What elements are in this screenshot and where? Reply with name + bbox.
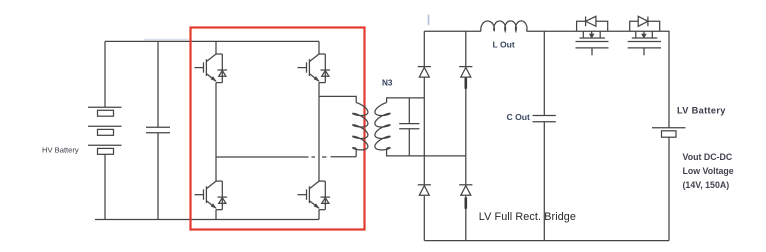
wire: secondary bottom lead (387, 148, 466, 156)
wire: left leg midpoint (215, 83, 217, 182)
svg-text:Vout DC-DC: Vout DC-DC (683, 152, 733, 162)
transistor Q3 bottom-left IGBT (195, 181, 228, 210)
svg-text:HV Battery: HV Battery (42, 146, 79, 155)
svg-text:N3: N3 (382, 79, 393, 88)
diode D4 (459, 185, 472, 196)
transistor Q4 bottom-right IGBT (298, 181, 331, 210)
wire: right leg collector stub (318, 41, 320, 54)
battery HV Battery (88, 107, 122, 154)
transistor M1 with body diode (576, 16, 609, 55)
transistor Q2 top-right IGBT (298, 54, 331, 83)
inductor L Out (481, 21, 527, 31)
diode D2 (459, 67, 472, 78)
wire: secondary top lead (387, 98, 425, 103)
transistor Q1 top-left IGBT (195, 54, 228, 83)
diode D1 (418, 67, 431, 78)
svg-text:L Out: L Out (493, 39, 515, 49)
svg-text:(14V, 150A): (14V, 150A) (683, 180, 730, 190)
inductor transformer secondary (375, 103, 390, 150)
diode D3 (418, 185, 431, 196)
artifact thick lead marks (464, 78, 467, 89)
wire: HV battery top lead (104, 41, 106, 107)
svg-text:LV Battery: LV Battery (677, 105, 726, 115)
wire: HV battery bottom lead (104, 154, 106, 219)
wire: bridge midpoint to primary bottom (216, 156, 356, 158)
wire: left rectifier column (423, 31, 425, 240)
wire: HV top rail (105, 40, 319, 42)
wire: input capacitor bottom lead (157, 133, 159, 220)
wire: left leg emitter stub (215, 210, 217, 220)
wire: primary bottom jog (355, 148, 357, 156)
svg-text:C Out: C Out (507, 112, 531, 122)
wire: right leg midpoint to primary top (319, 96, 356, 102)
transistor M2 with body diode (628, 16, 661, 55)
artifact highlight line (144, 38, 189, 40)
wire: rectifier top rail (424, 30, 481, 32)
wire: right leg midpoint (318, 83, 320, 182)
battery LV Battery (652, 128, 686, 241)
artifact cursor tick (428, 15, 430, 26)
wire: HV bottom rail (95, 219, 319, 221)
capacitor input cap (146, 127, 170, 133)
wire: right rectifier column (465, 31, 467, 240)
inductor transformer primary (353, 103, 368, 150)
wire: left leg collector stub (215, 41, 217, 54)
capacitor snubber across secondary (399, 98, 419, 156)
wire: rail after inductor (527, 31, 670, 127)
highlight box (191, 28, 365, 230)
wire: input capacitor top lead (157, 41, 159, 127)
wire: right leg emitter stub (318, 210, 320, 220)
wire: rectifier bottom rail (424, 240, 669, 242)
svg-text:Low Voltage: Low Voltage (683, 166, 734, 176)
svg-text:LV Full Rect. Bridge: LV Full Rect. Bridge (479, 211, 576, 223)
capacitor C Out (533, 31, 556, 240)
